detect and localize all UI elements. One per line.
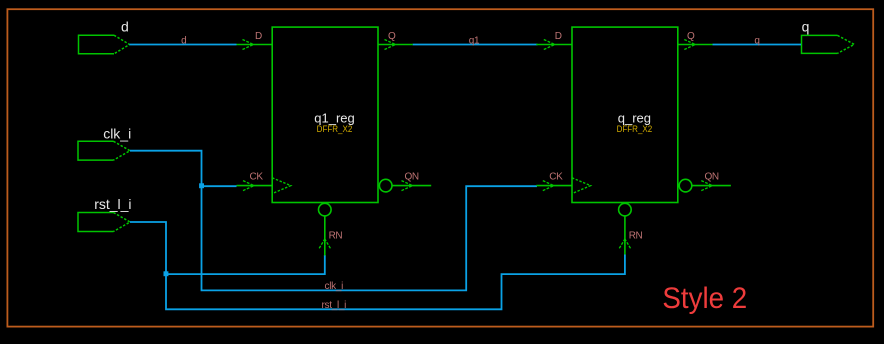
- svg-text:q1: q1: [469, 35, 480, 46]
- output port q: [802, 35, 855, 53]
- svg-text:Q: Q: [687, 31, 695, 42]
- pin QN of q1_reg: [379, 179, 431, 192]
- svg-text:rst_l_i: rst_l_i: [322, 300, 347, 311]
- wire net d: [130, 44, 237, 46]
- svg-text:clk_i: clk_i: [103, 125, 131, 141]
- pin Q of q1_reg: [378, 40, 413, 50]
- pin RN of q1_reg: [319, 203, 332, 255]
- wire net q1: [413, 44, 538, 46]
- flip-flop U1 q1_reg body: [272, 27, 378, 202]
- input port d: [79, 35, 130, 54]
- flip-flop U2 q_reg body: [572, 27, 678, 202]
- svg-text:RN: RN: [629, 231, 643, 242]
- junction on net clk_i: [199, 183, 204, 188]
- svg-text:QN: QN: [405, 172, 419, 183]
- svg-text:RN: RN: [329, 231, 343, 242]
- svg-text:q: q: [802, 19, 810, 35]
- wire net rst_l_i: [130, 222, 625, 309]
- junction on net rst_l_i: [164, 271, 169, 276]
- svg-text:CK: CK: [250, 171, 264, 182]
- pin CK of q_reg: [536, 178, 590, 194]
- wire net q: [713, 44, 802, 46]
- wire net clk_i: [130, 151, 537, 291]
- svg-text:d: d: [121, 19, 129, 35]
- svg-text:DFFR_X2: DFFR_X2: [617, 123, 653, 134]
- input port clk_i: [78, 141, 130, 160]
- svg-text:D: D: [255, 31, 262, 42]
- pin D of q_reg: [536, 40, 572, 50]
- svg-text:clk_i: clk_i: [325, 281, 344, 292]
- svg-text:q: q: [754, 35, 759, 46]
- pin D of q1_reg: [237, 40, 273, 50]
- svg-text:Q: Q: [388, 31, 396, 42]
- pin RN of q_reg: [619, 203, 632, 254]
- svg-text:Style 2: Style 2: [662, 282, 747, 315]
- pin QN of q_reg: [679, 179, 731, 192]
- pin Q of q_reg: [678, 40, 713, 50]
- svg-text:d: d: [181, 35, 186, 46]
- pin CK of q1_reg: [237, 178, 291, 194]
- svg-text:rst_l_i: rst_l_i: [94, 196, 131, 212]
- svg-text:DFFR_X2: DFFR_X2: [317, 123, 353, 134]
- svg-text:QN: QN: [705, 172, 719, 183]
- svg-text:CK: CK: [549, 171, 563, 182]
- svg-text:D: D: [555, 31, 562, 42]
- input port rst_l_i: [78, 213, 130, 232]
